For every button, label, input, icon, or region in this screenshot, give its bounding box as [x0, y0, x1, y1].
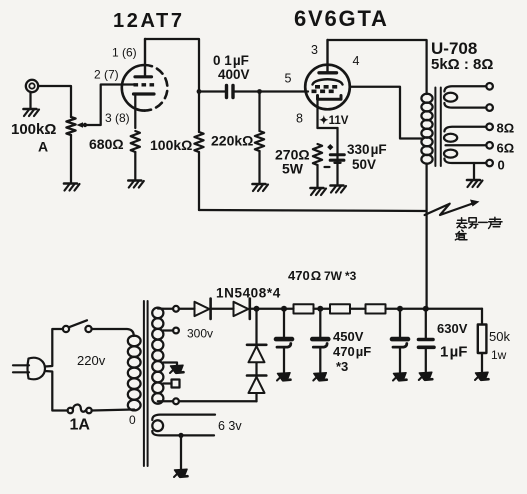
wire pin4 screen to primary tap — [350, 87, 422, 139]
terminal 8 ohm — [486, 121, 514, 136]
resistor R 470ohm box 3 — [366, 304, 386, 313]
ground (filter cap 2) — [313, 373, 327, 381]
svg-text:1N5408*4: 1N5408*4 — [216, 286, 281, 301]
capacitor C2 330uF 50V cathode bypass — [318, 128, 387, 184]
transformer T1 secondary bottom winding — [444, 127, 486, 163]
center tap to ground — [163, 363, 184, 374]
resistor 680 ohm cathode — [89, 131, 140, 179]
svg-text:8: 8 — [296, 112, 303, 126]
wire switch to primary — [92, 329, 134, 336]
svg-text:1w: 1w — [491, 348, 507, 362]
capacitor C1 0.1uF 400V coupling — [199, 53, 260, 98]
svg-text:0: 0 — [498, 158, 505, 173]
transformer T2 primary winding — [92, 336, 141, 427]
capacitor 470uF filter 1 — [276, 312, 292, 372]
label 220v — [77, 353, 106, 368]
potentiometer 100k A — [11, 117, 87, 155]
AC plug — [13, 358, 45, 380]
wire 6V6 plate to transformer primary top — [328, 40, 427, 94]
terminal 0 — [486, 158, 504, 173]
transformer T1 secondary top winding — [444, 86, 486, 107]
svg-text:6V6GTA: 6V6GTA — [294, 6, 389, 31]
svg-text:3: 3 — [311, 43, 318, 57]
HV bottom lead + terminal — [158, 398, 257, 404]
wire 12AT7 plate top rail to 100k node — [145, 39, 201, 94]
ground (filter cap 3) — [393, 373, 407, 381]
svg-text:470 µF: 470 µF — [333, 344, 371, 359]
resistor 100k plate load — [150, 92, 204, 211]
junction dot 220k/grid node — [257, 89, 262, 94]
svg-text:5kΩ : 8Ω: 5kΩ : 8Ω — [431, 56, 493, 73]
svg-text:8Ω: 8Ω — [497, 121, 515, 136]
svg-text:450V: 450V — [333, 329, 364, 344]
capacitor 470uF filter 3 — [392, 312, 408, 372]
capacitor 470uF filter 2 — [312, 312, 328, 372]
svg-text:1 (6): 1 (6) — [112, 46, 137, 60]
diode D3 — [247, 345, 266, 363]
svg-text:50V: 50V — [352, 157, 376, 172]
terminal speaker A — [486, 83, 493, 90]
diode D2 — [234, 299, 257, 319]
svg-text:6Ω: 6Ω — [497, 141, 515, 156]
transformer T2 HV secondary winding — [152, 308, 163, 404]
transformer T2 core — [144, 301, 148, 466]
wire wiper to 12AT7 grid pin2(7) — [80, 85, 134, 126]
heater winding 6.3v — [152, 415, 242, 469]
terminal speaker B — [486, 104, 493, 111]
svg-text:220v: 220v — [77, 353, 106, 368]
switch S1 — [63, 320, 92, 332]
svg-text:50k: 50k — [489, 329, 510, 344]
300v tap terminal — [163, 327, 213, 341]
svg-text:630V: 630V — [437, 321, 468, 336]
svg-text:330 µF: 330 µF — [347, 142, 387, 157]
svg-text:100kΩ: 100kΩ — [11, 121, 56, 138]
ground (220k) — [253, 184, 269, 191]
svg-text:*3: *3 — [345, 269, 357, 283]
capacitor 1uF 630V — [419, 312, 468, 372]
wire 0 tap to ground — [473, 163, 475, 179]
square tap terminal — [163, 380, 180, 388]
label 470ohm 7W *3 — [288, 268, 357, 283]
wire pot bottom to ground — [70, 135, 72, 182]
wire jack shell to ground — [29, 92, 31, 108]
wire B+ bottom rail — [199, 210, 426, 211]
input jack J1 — [26, 80, 38, 92]
resistor 270 ohm 5W cathode — [275, 144, 322, 187]
label +11V cathode voltage — [319, 115, 349, 127]
ground (filter cap 1) — [277, 373, 291, 381]
svg-text:680Ω: 680Ω — [89, 136, 124, 152]
resistor 50k 1w bleeder — [478, 309, 511, 372]
svg-text:300v: 300v — [187, 327, 213, 341]
svg-text:100kΩ: 100kΩ — [150, 137, 192, 153]
svg-text:0 1 µF: 0 1 µF — [213, 53, 249, 68]
tube V1 12AT7 — [94, 10, 185, 128]
svg-text:220kΩ: 220kΩ — [211, 133, 253, 149]
svg-text:5W: 5W — [282, 161, 304, 177]
wire B+ from primary bottom to PSU rail — [425, 164, 427, 310]
ground (680 ohm) — [128, 181, 144, 188]
ground (speaker 0) — [467, 180, 483, 187]
svg-text:✦11V: ✦11V — [319, 115, 349, 127]
svg-text:400V: 400V — [218, 67, 250, 82]
ground (50k) — [475, 372, 489, 380]
resistor R 470ohm box 1 — [294, 304, 314, 313]
B+ filter rail — [254, 306, 483, 312]
svg-text:4: 4 — [353, 54, 360, 68]
svg-text:2 (7): 2 (7) — [94, 68, 119, 82]
label 1N5408*4 — [216, 286, 281, 301]
tube V2 6V6GTA — [285, 6, 389, 128]
ground (heater winding) — [174, 469, 188, 477]
svg-text:12AT7: 12AT7 — [113, 10, 185, 32]
arrow to other channel — [425, 200, 480, 216]
label 450V 470uF *3 — [333, 329, 371, 374]
svg-text:1 µF: 1 µF — [440, 344, 467, 361]
diode D1 1N5408 — [195, 299, 234, 319]
svg-text:A: A — [38, 139, 48, 155]
ground (270 ohm) — [311, 188, 327, 195]
svg-text:3 (8): 3 (8) — [105, 111, 130, 125]
wire cap to 6V6 grid pin5 — [260, 90, 309, 92]
resistor R 470ohm box 2 — [330, 304, 350, 313]
svg-text:*3: *3 — [336, 359, 348, 374]
svg-text:7W: 7W — [324, 269, 343, 283]
ground (1uF cap) — [419, 372, 433, 380]
terminal 6 ohm — [486, 141, 514, 156]
svg-text:6 3v: 6 3v — [218, 419, 242, 433]
svg-text:5: 5 — [285, 72, 292, 86]
HV top lead + terminal — [158, 306, 195, 312]
wire diode string vertical — [255, 309, 257, 402]
ground (potentiometer) — [64, 184, 80, 191]
wire jack to pot top — [38, 86, 71, 117]
ground (330uF) — [331, 186, 347, 193]
wire plug to switch and fuse — [45, 329, 68, 411]
diode D4 — [247, 376, 266, 394]
fuse F1 1A — [68, 405, 92, 434]
resistor 220k grid leak — [211, 92, 264, 183]
svg-text:470 Ω: 470 Ω — [288, 268, 321, 283]
label U-708 — [431, 39, 493, 73]
svg-text:1A: 1A — [70, 417, 91, 434]
ground (input jack) — [24, 109, 40, 116]
transformer T1 U-708 primary winding — [421, 94, 432, 164]
transformer T1 core — [435, 88, 440, 167]
svg-text:0: 0 — [129, 413, 136, 427]
label: to other channel (Chinese) — [455, 217, 502, 240]
